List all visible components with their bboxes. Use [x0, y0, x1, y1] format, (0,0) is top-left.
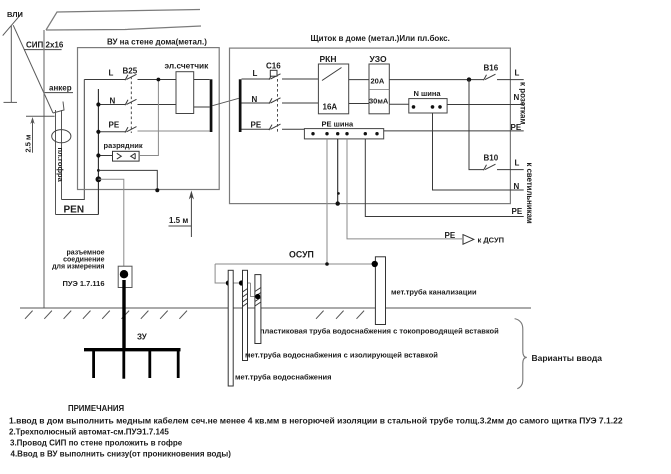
wire PE bus to OSUP — [326, 139, 328, 264]
svg-text:разъемное: разъемное — [66, 250, 104, 257]
breaker B10 blade — [484, 164, 496, 170]
svg-text:СИП 2x16: СИП 2x16 — [26, 41, 64, 50]
ground line — [20, 307, 531, 309]
ground hatching — [25, 311, 384, 319]
shchitok incoming cable bar — [239, 79, 242, 132]
svg-text:к светильникам: к светильникам — [525, 163, 534, 224]
wire PE bus to enclosure bottom — [337, 139, 339, 204]
wire N RKN to UZO — [349, 103, 369, 105]
earth electrode ZU horizontal bar — [84, 348, 181, 351]
wire N UZO to N bus — [389, 103, 409, 105]
node L-arrester junction dot — [157, 78, 161, 82]
node arrester junction dot — [96, 153, 100, 157]
wire PEN bottom run into VU — [56, 214, 99, 216]
RKN contact diagonal — [322, 68, 342, 81]
OSUP equipotential bus — [215, 263, 375, 265]
node small junction on bus — [97, 169, 100, 172]
wire enclosure bond from bus to box bottom — [98, 170, 157, 190]
breaker B25 linkage (dashed) — [130, 77, 132, 134]
svg-text:N: N — [514, 182, 520, 191]
svg-text:для измерения: для измерения — [52, 264, 104, 271]
ellipse marker on tube — [52, 130, 71, 143]
wire L bottom run into VU — [62, 80, 85, 200]
svg-text:PE: PE — [251, 121, 262, 130]
svg-text:пластиковая труба водоснабжени: пластиковая труба водоснабжения с токопр… — [260, 326, 499, 335]
PEN riser bus in VU — [97, 89, 99, 215]
svg-text:PE: PE — [109, 121, 120, 130]
svg-text:к розеткам: к розеткам — [519, 82, 528, 124]
svg-text:30мА: 30мА — [369, 97, 389, 106]
breaker B16 blade — [484, 74, 496, 80]
svg-text:РКН: РКН — [320, 54, 337, 64]
surge arrester (razryadnik) box — [113, 151, 140, 161]
wire L to lights — [497, 169, 524, 171]
voltage relay RKN box — [318, 64, 348, 114]
wire meter N output — [194, 106, 210, 108]
svg-text:PE: PE — [445, 231, 456, 240]
svg-text:N: N — [110, 97, 116, 106]
wire L UZO to B16 — [389, 79, 484, 81]
svg-text:ВУ на стене дома(метал.): ВУ на стене дома(метал.) — [107, 38, 207, 47]
wire N row in shchitok — [242, 102, 319, 104]
svg-text:Щиток в доме (метал.)Или пл.бо: Щиток в доме (метал.)Или пл.бокс. — [311, 34, 450, 43]
wire SIP drop from pole to anchor — [13, 25, 53, 113]
svg-text:Варианты ввода: Варианты ввода — [532, 353, 603, 363]
breaker B25 pole L blade — [125, 74, 137, 80]
wire L row in VU — [84, 79, 176, 81]
wire L branch down to B10 — [469, 80, 484, 170]
svg-text:B16: B16 — [484, 64, 499, 73]
node bond dot pipe 1 — [226, 280, 231, 285]
arrester spark-gap symbols — [117, 153, 135, 159]
N bus terminal dots — [412, 105, 416, 109]
wire L row in shchitok — [242, 78, 319, 80]
overhead line pole VLI — [3, 14, 22, 103]
wire arrester right lead up to L — [139, 80, 158, 156]
svg-text:2.5 м: 2.5 м — [24, 134, 33, 153]
dimension 2.5 m — [26, 116, 55, 153]
breaker B25 pole PE blade — [125, 127, 137, 133]
node OSUP sewage bond dot (over pipe) — [372, 261, 378, 267]
svg-text:4.Ввод в ВУ выполнить снизу(от: 4.Ввод в ВУ выполнить снизу(от проникнов… — [11, 450, 232, 459]
breaker C16 pole PE blade — [269, 124, 281, 130]
breaker C16 pole N blade — [269, 98, 281, 104]
wire to earth electrode via measuring joint — [98, 179, 123, 266]
svg-text:ОСУП: ОСУП — [289, 250, 314, 260]
house wall and roof outline — [44, 10, 201, 309]
dimension 1.5 m arrow — [190, 193, 192, 237]
VU enclosure box — [78, 48, 220, 190]
svg-text:L: L — [515, 158, 520, 167]
wire meter L output — [194, 79, 210, 81]
breaker C16 linkage (dashed) — [277, 79, 279, 133]
node bond dot pipe 3 — [255, 294, 260, 299]
svg-text:PEN: PEN — [64, 205, 85, 216]
conductive insert hatch on pipe 3 — [255, 288, 261, 307]
svg-text:ПУЭ 1.7.116: ПУЭ 1.7.116 — [63, 279, 105, 288]
svg-text:L: L — [515, 68, 520, 77]
svg-text:3.Провод СИП по стене проложит: 3.Провод СИП по стене проложить в гофре — [10, 439, 183, 448]
svg-text:N: N — [252, 95, 258, 104]
svg-text:к ДСУП: к ДСУП — [478, 235, 505, 244]
sewage metal pipe — [375, 257, 385, 325]
svg-text:2.Трехполюсный автомат-см.ПУЭ1: 2.Трехполюсный автомат-см.ПУЭ1.7.145 — [9, 428, 169, 437]
node bond dot pipe 3 (over hatch) — [255, 294, 260, 299]
svg-text:анкер: анкер — [49, 84, 72, 93]
earth electrode rods — [94, 350, 179, 379]
wire PE to sockets — [384, 130, 524, 132]
node N junction dot — [96, 102, 100, 106]
node enclosure bond dot — [155, 188, 159, 192]
PE bus box — [304, 129, 383, 139]
anchor bracket — [53, 102, 64, 114]
svg-text:1.ввод в дом выполнить медным: 1.ввод в дом выполнить медным кабелем се… — [9, 416, 623, 426]
svg-text:B25: B25 — [123, 67, 138, 76]
earthing conductor (thick) — [122, 280, 125, 350]
svg-text:УЗО: УЗО — [370, 54, 388, 64]
wire N down to lights — [433, 113, 524, 190]
wire PE row in shchitok — [242, 128, 305, 130]
svg-text:эл.счетчик: эл.счетчик — [165, 61, 210, 71]
node OSUP to sewage pipe dot — [372, 261, 378, 267]
RCD UZO box — [369, 64, 389, 114]
breaker B25 pole N blade — [125, 99, 137, 105]
svg-text:L: L — [253, 69, 258, 78]
measuring joint contact dot — [120, 270, 128, 278]
svg-text:мет.труба канализации: мет.труба канализации — [391, 287, 477, 296]
wire step down to plastic pipe — [251, 283, 258, 297]
svg-text:РЕ шина: РЕ шина — [322, 119, 354, 128]
UZO divider — [369, 89, 389, 91]
node bond dot pipe 2 — [239, 280, 244, 285]
svg-text:20А: 20А — [371, 77, 385, 86]
node OSUP junction with PE drop — [325, 262, 329, 266]
kWh meter box — [176, 72, 194, 114]
svg-text:мет.труба водоснабжения с изол: мет.труба водоснабжения с изолирующей вс… — [245, 350, 438, 359]
node B10 branch junction — [467, 77, 471, 81]
wire L RKN to UZO — [349, 79, 369, 81]
svg-text:16А: 16А — [323, 103, 338, 112]
plastic water pipe 3 with conductive insert — [255, 275, 261, 344]
svg-text:C16: C16 — [266, 62, 281, 71]
shchitok enclosure box — [230, 48, 511, 204]
node PE junction dot — [96, 130, 100, 134]
PE bus terminal dots — [311, 132, 378, 135]
svg-text:ВЛИ: ВЛИ — [7, 10, 23, 19]
breaker C16 release square — [270, 70, 277, 76]
corrugated tube (pl.gofra) down the wall — [56, 110, 62, 215]
svg-text:ПРИМЕЧАНИЯ: ПРИМЕЧАНИЯ — [68, 404, 124, 413]
metal water pipe 1 — [228, 270, 233, 386]
svg-text:L: L — [109, 69, 114, 78]
wire PE bus to lights — [365, 139, 523, 217]
svg-text:PE: PE — [512, 207, 523, 216]
wire L to sockets — [497, 79, 524, 81]
brace variants — [515, 319, 527, 389]
wire PE row in VU — [98, 131, 125, 133]
wire N to sockets — [447, 104, 524, 106]
node enclosure bond dot — [336, 201, 340, 205]
insulating insert hatch on pipe 2 — [243, 289, 248, 307]
svg-text:пл.гофра: пл.гофра — [56, 148, 65, 183]
metal water pipe 2 with insulating insert — [243, 270, 248, 360]
svg-text:разрядник: разрядник — [104, 141, 143, 150]
DSUP connector triangle — [463, 235, 474, 245]
wire OSUP left drop to water pipes — [215, 264, 250, 283]
VU outgoing cable bar — [210, 79, 213, 132]
svg-text:ЗУ: ЗУ — [137, 333, 148, 342]
wire PE after switch to cable bar — [138, 130, 210, 132]
N bus box — [409, 99, 447, 113]
wire N row in VU — [98, 104, 176, 106]
svg-text:соединение: соединение — [63, 257, 104, 264]
node small dot on bond wire — [337, 192, 340, 195]
svg-text:1.5 м: 1.5 м — [169, 216, 188, 225]
wire PE bus to DSUP — [347, 139, 462, 239]
measuring joint box — [118, 266, 132, 287]
breaker C16 pole L blade — [269, 74, 281, 80]
svg-text:мет.труба водоснабжения: мет.труба водоснабжения — [235, 372, 331, 381]
wire cable link VU to shchitok — [212, 98, 238, 105]
svg-text:N шина: N шина — [414, 89, 442, 98]
wire arrester left lead — [98, 155, 112, 157]
svg-text:B10: B10 — [484, 154, 499, 163]
node PEN main junction dot — [96, 176, 102, 182]
